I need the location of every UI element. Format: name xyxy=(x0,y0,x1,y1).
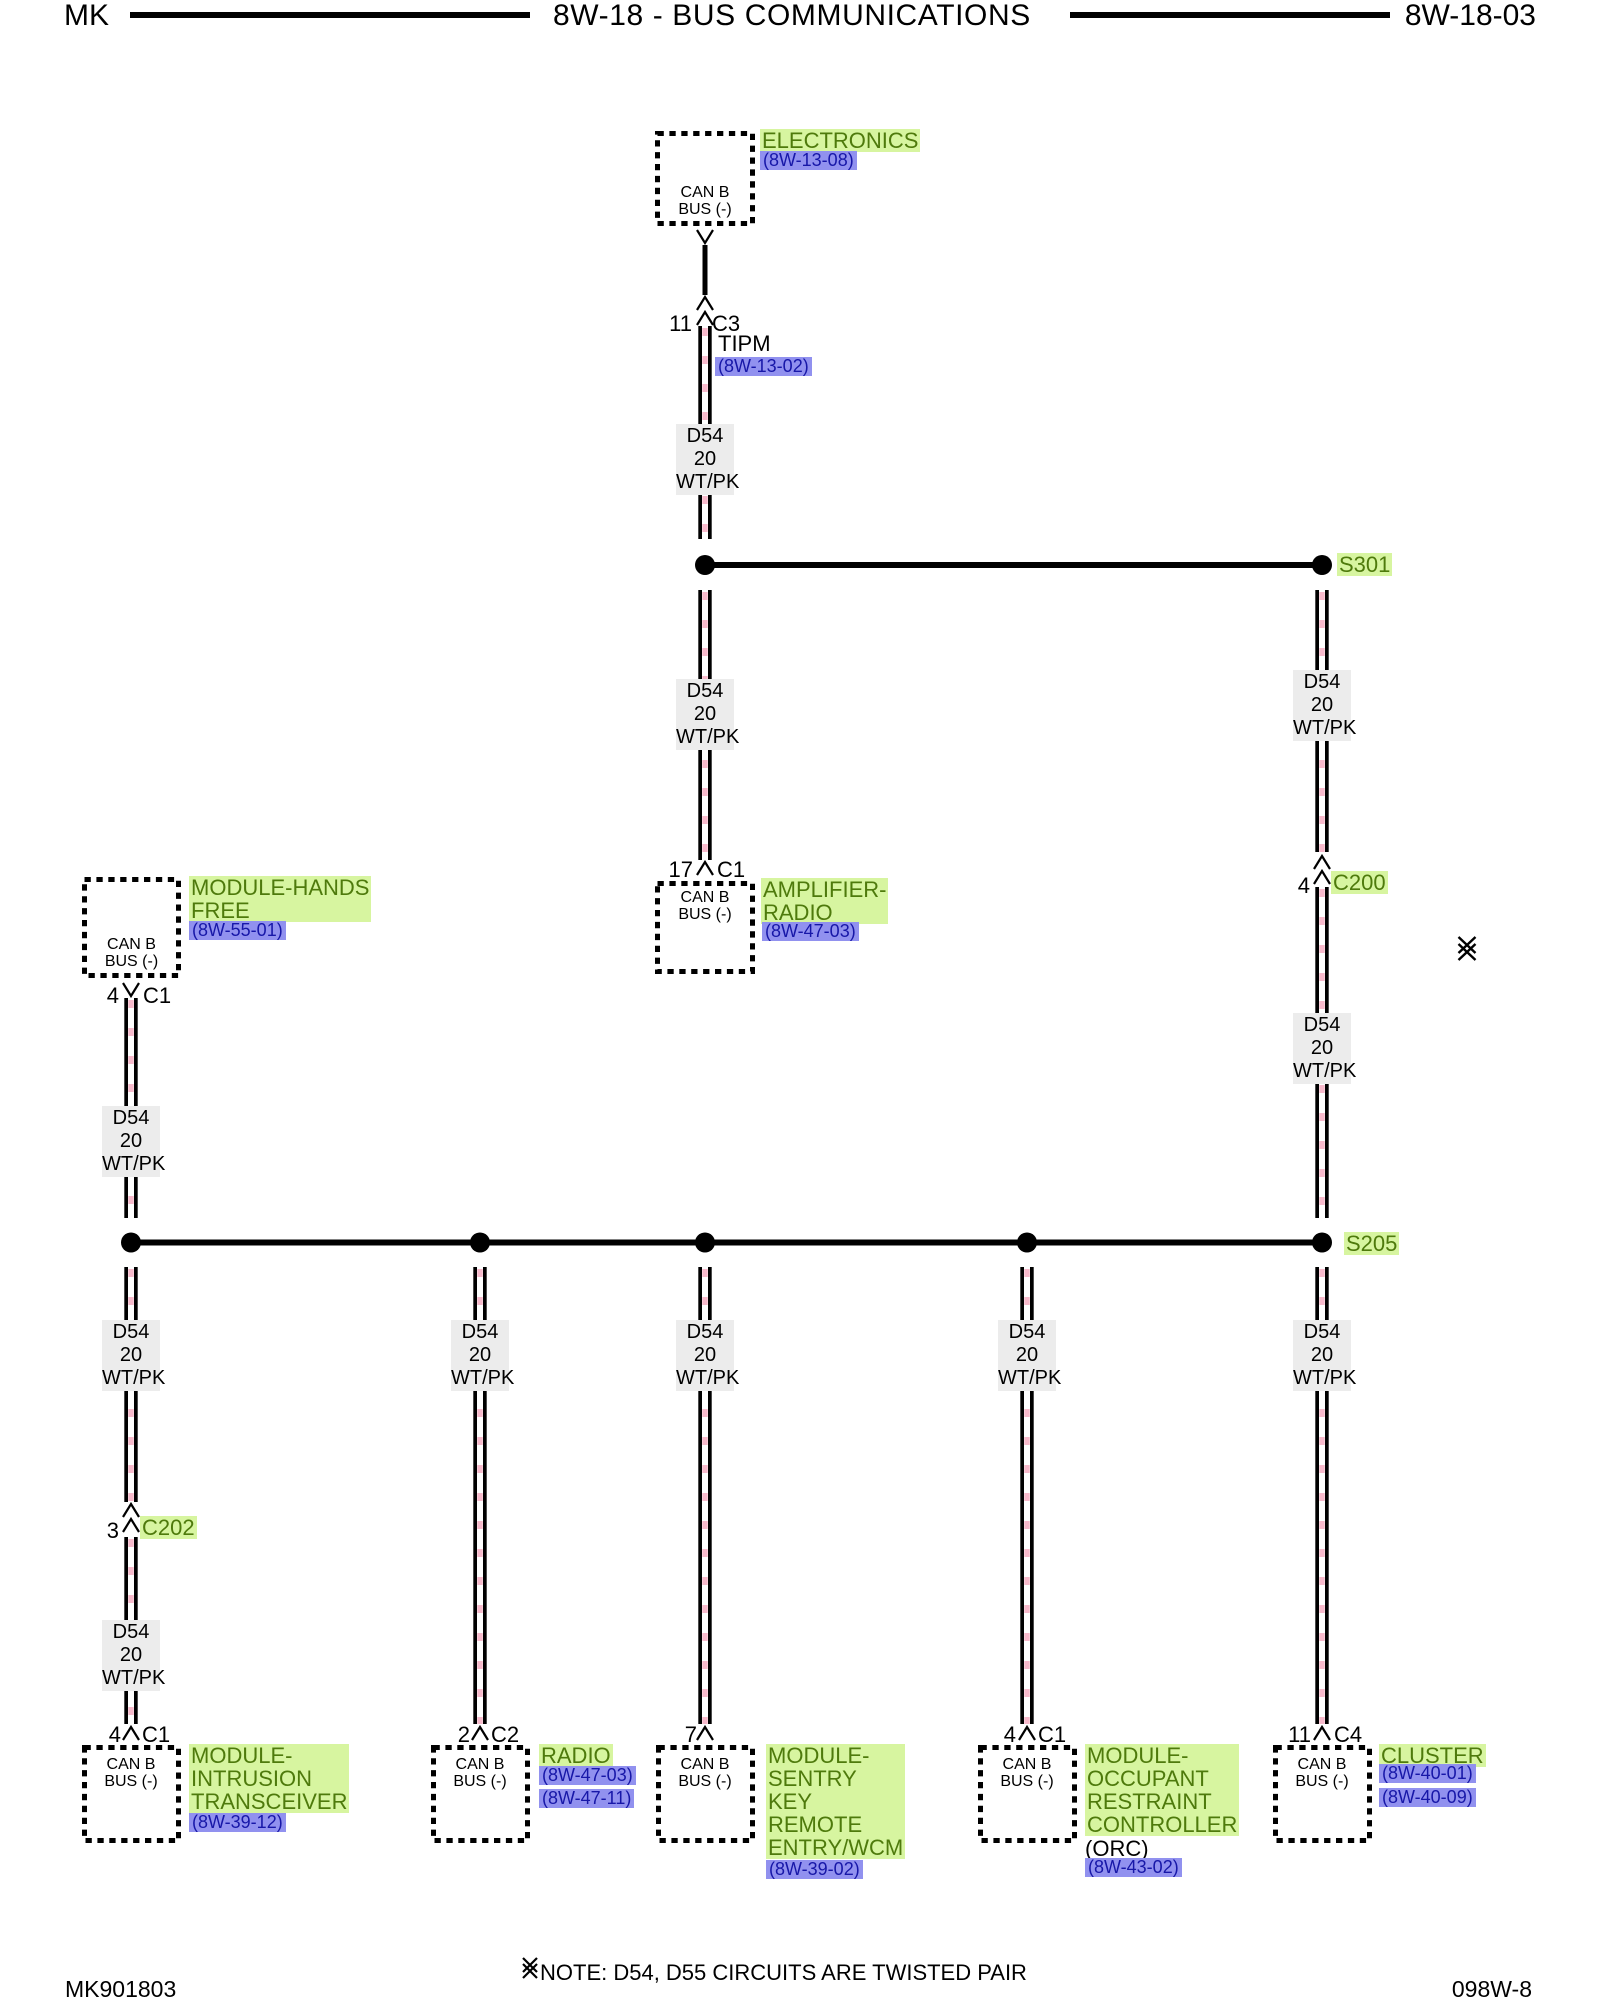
wire D54 20 WT/PK from S301 to C200 xyxy=(1315,590,1328,852)
reference 8W-13-08 xyxy=(760,151,857,170)
reference 8W-39-02 xyxy=(766,1860,863,1879)
reference 8W-47-03 (amplifier) xyxy=(762,922,859,941)
pin number 4 (hands-free C1) xyxy=(107,984,119,1007)
wire D54 20 WT/PK from hands-free C1 to S205 xyxy=(124,998,137,1218)
junction dot S205 col3 xyxy=(695,1233,715,1253)
junction dot S205 end left xyxy=(121,1233,141,1253)
junction dot S301 right xyxy=(1312,555,1332,575)
connector C1 pin 4 arrow out of hands-free module xyxy=(123,983,139,996)
connector pin 7 at sentry key module xyxy=(697,1727,713,1740)
wire D54 20 WT/PK from C202 to intrusion C1 xyxy=(124,1537,137,1724)
connector name C1 (intrusion) xyxy=(142,1723,170,1746)
wire value label D54 20 WT/PK (top) xyxy=(676,424,734,495)
header rule left xyxy=(130,12,530,18)
wire value label D54 20 WT/PK (col3 below S205) xyxy=(676,1320,734,1391)
wire value label D54 20 WT/PK (col2 below S205) xyxy=(451,1320,509,1391)
wire value label D54 20 WT/PK (col5 below S205) xyxy=(1293,1320,1351,1391)
footer sheet code 098W-8 xyxy=(1452,1977,1532,2000)
pin number 4 (C200) xyxy=(1298,874,1310,897)
label (ORC) xyxy=(1085,1837,1149,1860)
connector name C4 (cluster) xyxy=(1334,1723,1362,1746)
connector C1 pin 4 at occupant restraint controller xyxy=(1019,1727,1035,1740)
connector C4 pin 11 at cluster xyxy=(1314,1727,1330,1740)
module RADIO box (CAN B BUS -) xyxy=(434,1748,528,1841)
reference 8W-55-01 xyxy=(189,921,286,940)
pin number 7 (sentry key) xyxy=(685,1723,697,1746)
module AMPLIFIER-RADIO box (CAN B BUS -) xyxy=(658,884,753,972)
twisted-pair symbol right margin xyxy=(1459,937,1476,960)
wire value label D54 20 WT/PK (C202 to intrusion) xyxy=(102,1620,160,1691)
pin number 17 xyxy=(669,858,693,881)
wire D54 20 WT/PK from S205 to radio C2 xyxy=(473,1267,486,1724)
module OCCUPANT RESTRAINT CONTROLLER box (CAN B BUS -) xyxy=(981,1748,1075,1841)
connector C1 pin 4 at intrusion transceiver xyxy=(123,1727,139,1740)
module SENTRY KEY REMOTE ENTRY/WCM box (CAN B BUS -) xyxy=(659,1748,753,1841)
wire D54 20 WT/PK from C200 to S205 xyxy=(1315,887,1328,1218)
connector name C1 (hands-free) xyxy=(143,984,171,1007)
connector C1 pin 17 at amplifier xyxy=(697,862,713,875)
twisted-pair symbol at note xyxy=(523,1958,537,1978)
junction dot S205 col4 xyxy=(1017,1233,1037,1253)
reference 8W-47-11 (radio) xyxy=(539,1789,634,1808)
label RADIO xyxy=(539,1744,613,1767)
intrusion box pin name CAN B BUS (-) xyxy=(81,1756,181,1790)
wire value label D54 20 WT/PK (C200 to S205) xyxy=(1293,1013,1351,1084)
in-line connector C202 pin 3 xyxy=(123,1504,139,1517)
label TIPM xyxy=(718,332,771,355)
cluster box pin name CAN B BUS (-) xyxy=(1272,1756,1372,1790)
header rule right xyxy=(1070,12,1390,18)
label AMPLIFIER-RADIO xyxy=(761,878,888,924)
wire value label D54 20 WT/PK (S301 right leg) xyxy=(1293,670,1351,741)
reference 8W-40-01 xyxy=(1379,1764,1476,1783)
header title 8W-18 BUS COMMUNICATIONS xyxy=(553,1,1031,31)
in-line connector C200 pin 4 xyxy=(1314,856,1330,869)
wire value label D54 20 WT/PK (hands-free leg) xyxy=(102,1106,160,1177)
wire value label D54 20 WT/PK (S301 left leg) xyxy=(676,679,734,750)
reference 8W-43-02 xyxy=(1085,1858,1182,1877)
reference 8W-47-03 (radio) xyxy=(539,1766,636,1785)
in-line connector C3 pin 11 xyxy=(697,297,713,310)
junction dot S205 col2 xyxy=(470,1233,490,1253)
reference 8W-13-02 xyxy=(715,357,812,376)
connector name C1 (amplifier) xyxy=(717,858,745,881)
splice name S205 xyxy=(1344,1232,1399,1255)
connector name C1 (ORC) xyxy=(1038,1723,1066,1746)
sentry key box pin name CAN B BUS (-) xyxy=(655,1756,755,1790)
wire D54 20 WT/PK from S205 to cluster C4 xyxy=(1315,1267,1328,1724)
pin number 11 xyxy=(669,312,692,335)
wire D54 20 WT/PK from S205 to ORC C1 xyxy=(1020,1267,1033,1724)
splice S301 bus xyxy=(705,562,1322,568)
connector name C3 xyxy=(712,312,740,335)
reference 8W-40-09 xyxy=(1379,1788,1476,1807)
connector name C2 (radio) xyxy=(491,1723,519,1746)
wire D54 20 WT/PK from S205 to sentry key pin 7 xyxy=(698,1267,711,1724)
reference 8W-39-12 xyxy=(189,1813,286,1832)
label MODULE-INTRUSION TRANSCEIVER xyxy=(189,1744,349,1813)
ORC box pin name CAN B BUS (-) xyxy=(977,1756,1077,1790)
module CLUSTER box (CAN B BUS -) xyxy=(1276,1748,1370,1841)
pin number 4 (ORC C1) xyxy=(1004,1723,1016,1746)
connector C2 pin 2 at radio xyxy=(472,1727,488,1740)
wire D54 20 WT/PK from S205 to C202 xyxy=(124,1267,137,1502)
ELECTRONICS box pin name CAN B BUS (-) xyxy=(655,184,755,218)
pin number 3 (C202) xyxy=(107,1519,119,1542)
connector name C202 xyxy=(140,1516,197,1539)
pin number 2 (radio C2) xyxy=(458,1723,470,1746)
footer sheet code MK901803 xyxy=(65,1977,176,2000)
pin number 4 (intrusion C1) xyxy=(109,1723,121,1746)
junction dot S301 left xyxy=(695,555,715,575)
AMPLIFIER box pin name CAN B BUS (-) xyxy=(655,889,755,923)
splice name S301 xyxy=(1337,553,1392,576)
wire D54 20 WT/PK from S301 to amplifier C1 xyxy=(698,590,711,860)
radio box pin name CAN B BUS (-) xyxy=(430,1756,530,1790)
wire solid from ELECTRONICS to C3 xyxy=(703,245,708,295)
wire value label D54 20 WT/PK (col4 below S205) xyxy=(998,1320,1056,1391)
label ELECTRONICS xyxy=(760,129,920,152)
module MODULE-INTRUSION TRANSCEIVER box (CAN B BUS -) xyxy=(85,1748,179,1841)
header label MK xyxy=(64,1,109,31)
header page number 8W-18-03 xyxy=(1405,1,1536,31)
label MODULE-OCCUPANT RESTRAINT CONTROLLER xyxy=(1085,1744,1239,1836)
module MODULE-HANDS FREE box (CAN B BUS -) xyxy=(85,880,179,976)
connector name C200 xyxy=(1331,871,1388,894)
wire D54 20 WT/PK from C3 to S301 xyxy=(698,326,711,539)
connector arrow out of ELECTRONICS xyxy=(697,230,713,243)
module ELECTRONICS box (CAN B BUS -) xyxy=(658,134,753,224)
pin number 11 (cluster C4) xyxy=(1288,1723,1311,1746)
splice S205 bus xyxy=(131,1240,1322,1246)
HANDS FREE box pin name CAN B BUS (-) xyxy=(82,936,181,970)
label MODULE-HANDS FREE xyxy=(189,876,371,922)
junction dot S205 end right xyxy=(1312,1233,1332,1253)
footer note D54 D55 twisted pair xyxy=(540,1961,1027,1984)
wire value label D54 20 WT/PK (col1 below S205) xyxy=(102,1320,160,1391)
label MODULE-SENTRY KEY REMOTE ENTRY/WCM xyxy=(766,1744,905,1859)
label CLUSTER xyxy=(1379,1744,1486,1767)
